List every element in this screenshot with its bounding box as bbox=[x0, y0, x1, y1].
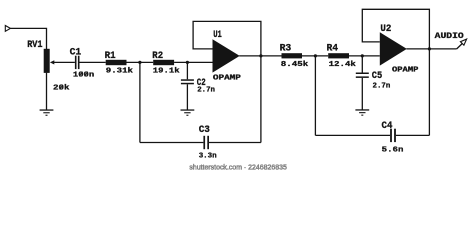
svg-text:9.31k: 9.31k bbox=[106, 68, 134, 76]
svg-text:C4: C4 bbox=[382, 121, 393, 132]
wire C3 rail left bbox=[140, 142, 204, 144]
value 20k bbox=[53, 85, 70, 93]
node OUT1 junction dot bbox=[259, 54, 262, 57]
svg-text:OPAMP: OPAMP bbox=[213, 75, 241, 83]
node B junction dot bbox=[186, 61, 189, 64]
wire C4 rail right bbox=[396, 134, 430, 136]
wire R1 to R2 (node A) bbox=[127, 61, 154, 63]
wire AUDIO diagonal bbox=[457, 43, 463, 49]
wire input to RV1 top bbox=[10, 28, 46, 49]
wire R3 to R4 (node C) bbox=[302, 55, 328, 57]
node OUT2 junction dot bbox=[428, 47, 431, 50]
wire node C down to C4 rail bbox=[314, 56, 316, 135]
svg-text:U1: U1 bbox=[213, 30, 222, 41]
wire C1 to R1 bbox=[80, 61, 106, 63]
wire C2 to ground bbox=[186, 84, 188, 110]
svg-text:8.45k: 8.45k bbox=[281, 61, 309, 69]
op-amp U2 bbox=[380, 32, 407, 65]
wire R2 to U1 input (node B) bbox=[174, 61, 212, 63]
svg-text:19.1k: 19.1k bbox=[153, 68, 180, 76]
op-amp U1 bbox=[213, 39, 240, 72]
wire node A down to C3 rail bbox=[139, 62, 141, 142]
svg-text:R4: R4 bbox=[327, 44, 339, 55]
wire C4 rail left bbox=[315, 134, 390, 136]
node C junction dot bbox=[314, 54, 317, 57]
svg-text:2.7n: 2.7n bbox=[197, 87, 215, 95]
node A junction dot bbox=[138, 61, 141, 64]
wire node B down to C2 bbox=[186, 62, 188, 79]
svg-text:R1: R1 bbox=[105, 51, 116, 62]
capacitor C2 bbox=[181, 79, 194, 84]
wire U2 feedback loop bbox=[362, 9, 429, 135]
svg-text:C5: C5 bbox=[372, 71, 383, 82]
svg-text:2.7n: 2.7n bbox=[373, 82, 391, 90]
resistor R3 bbox=[282, 53, 303, 58]
svg-text:OPAMP: OPAMP bbox=[392, 66, 418, 74]
capacitor C5 bbox=[356, 73, 369, 78]
node D junction dot bbox=[361, 54, 364, 57]
AUDIO output connector arrow bbox=[460, 39, 466, 45]
svg-text:shutterstock.com · 2246826835: shutterstock.com · 2246826835 bbox=[189, 164, 287, 171]
wire node D down to C5 bbox=[361, 56, 363, 73]
svg-text:C1: C1 bbox=[70, 48, 82, 59]
svg-text:5.6n: 5.6n bbox=[382, 146, 404, 154]
wire C3 rail right bbox=[209, 142, 261, 144]
svg-text:AUDIO: AUDIO bbox=[435, 33, 464, 41]
wire R4 to U2 input (node D) bbox=[349, 55, 380, 57]
ground (RV1) bbox=[40, 109, 54, 115]
svg-text:R3: R3 bbox=[280, 44, 292, 55]
svg-text:100n: 100n bbox=[73, 72, 95, 80]
svg-text:20k: 20k bbox=[53, 85, 70, 93]
wire RV1 wiper to C1 bbox=[54, 61, 75, 63]
wire C5 to ground bbox=[361, 78, 363, 110]
resistor R1 bbox=[106, 60, 127, 65]
svg-text:12.4k: 12.4k bbox=[329, 61, 357, 69]
resistor R4 bbox=[328, 53, 349, 58]
svg-text:R2: R2 bbox=[152, 51, 163, 62]
svg-text:U2: U2 bbox=[380, 24, 391, 35]
ground (C2) bbox=[181, 109, 195, 115]
svg-text:C3: C3 bbox=[199, 125, 210, 136]
capacitor C4 bbox=[390, 129, 396, 142]
potentiometer RV1 bbox=[44, 49, 55, 73]
ground (C5) bbox=[355, 109, 369, 115]
wire U1 feedback loop bbox=[193, 21, 261, 142]
value 100n bbox=[73, 72, 95, 80]
wire U1 output to R3 bbox=[239, 55, 281, 57]
capacitor C3 bbox=[203, 136, 209, 149]
capacitor C1 bbox=[75, 56, 80, 69]
svg-text:RV1: RV1 bbox=[27, 40, 42, 51]
wire U2 output to AUDIO bbox=[406, 48, 456, 50]
svg-text:3.3n: 3.3n bbox=[199, 153, 217, 161]
input connector bbox=[5, 26, 10, 32]
wire RV1 bottom to ground bbox=[46, 73, 48, 110]
resistor R2 bbox=[153, 60, 174, 65]
